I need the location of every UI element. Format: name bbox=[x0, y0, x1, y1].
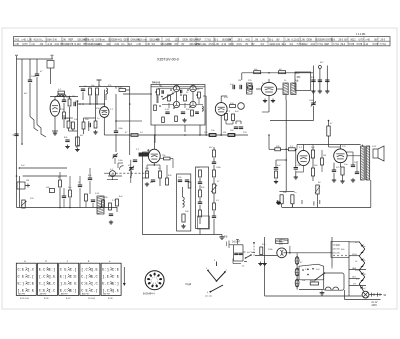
capacitor C12 bbox=[181, 111, 185, 113]
svg-text:9: 9 bbox=[152, 277, 153, 279]
IF transformer T2 bbox=[247, 83, 253, 94]
ground bbox=[221, 235, 223, 237]
resistor R45 bbox=[228, 134, 235, 137]
wire bbox=[220, 96, 222, 103]
wire bbox=[82, 92, 84, 100]
svg-text:L 96: L 96 bbox=[286, 39, 291, 41]
svg-text:1n: 1n bbox=[158, 168, 161, 170]
capacitor C38 bbox=[274, 167, 278, 169]
pot P2 bbox=[212, 184, 215, 193]
svg-text:25 104: 25 104 bbox=[88, 298, 95, 300]
tube V6 bbox=[238, 103, 245, 110]
svg-text:X35TUV-00-0: X35TUV-00-0 bbox=[157, 58, 179, 62]
wire bbox=[346, 151, 353, 153]
pot P3 bbox=[316, 185, 319, 194]
svg-text:2-62: 2-62 bbox=[166, 39, 171, 41]
wire bbox=[235, 121, 237, 124]
resistor R33 bbox=[213, 150, 216, 157]
resistor R56 bbox=[260, 247, 263, 255]
resistor R32 bbox=[199, 210, 202, 217]
line filter choke L6 bbox=[276, 239, 289, 244]
wire bbox=[141, 152, 143, 235]
capacitor C10 bbox=[114, 130, 118, 132]
capacitor C17 bbox=[78, 184, 82, 186]
mains bottom bus bbox=[265, 295, 362, 297]
svg-text:UY: UY bbox=[353, 284, 357, 286]
svg-text:205: 205 bbox=[279, 244, 284, 246]
svg-text:L 96: L 96 bbox=[301, 39, 306, 41]
svg-text:7.7.61: 7.7.61 bbox=[317, 44, 324, 46]
wire bbox=[333, 163, 335, 170]
resistor R10 bbox=[94, 121, 97, 128]
svg-text:E:]: E:] bbox=[49, 268, 56, 273]
svg-text:x 45: x 45 bbox=[15, 44, 20, 46]
wafer arrow bbox=[123, 267, 125, 284]
svg-text:4-61: 4-61 bbox=[118, 39, 123, 41]
capacitor C44 bbox=[195, 111, 199, 113]
wire bbox=[296, 145, 298, 150]
svg-text:10n: 10n bbox=[344, 164, 348, 166]
junction bbox=[19, 167, 21, 169]
AF box 2 bbox=[196, 167, 209, 229]
capacitor C13 bbox=[133, 159, 137, 161]
resistor R28 bbox=[116, 199, 119, 206]
svg-text:2n2: 2n2 bbox=[204, 132, 208, 134]
resistor R58 bbox=[154, 105, 157, 111]
svg-text:].E: ].E bbox=[112, 289, 119, 294]
svg-text:8: 8 bbox=[151, 279, 152, 281]
svg-text:2-62: 2-62 bbox=[15, 39, 20, 41]
antenna terminal A1 bbox=[16, 56, 18, 59]
tube V5 bbox=[215, 103, 227, 116]
capacitor C4 bbox=[62, 99, 66, 101]
svg-text:1M: 1M bbox=[72, 96, 75, 98]
wire bbox=[339, 145, 341, 150]
svg-text:BV: BV bbox=[157, 39, 161, 41]
svg-text:GEW: GEW bbox=[307, 39, 313, 41]
svg-text:100k: 100k bbox=[216, 167, 222, 169]
wire bbox=[319, 69, 321, 90]
wire bbox=[345, 299, 381, 301]
wire bbox=[77, 103, 104, 105]
svg-text:300: 300 bbox=[297, 77, 302, 79]
svg-text:15k: 15k bbox=[178, 177, 182, 179]
svg-text:200 245: 200 245 bbox=[333, 253, 341, 255]
resistor R27 bbox=[109, 203, 112, 210]
heater bus bbox=[348, 256, 350, 296]
left long bus bbox=[16, 59, 18, 208]
svg-text:4k7: 4k7 bbox=[320, 62, 324, 64]
resistor R54 bbox=[280, 195, 283, 204]
svg-text:4k7: 4k7 bbox=[80, 135, 84, 137]
switch wafer S1 bbox=[16, 263, 36, 295]
wire bbox=[115, 134, 117, 152]
terminal marks bbox=[371, 293, 373, 297]
wire bbox=[63, 115, 65, 118]
HT rail right bbox=[297, 144, 361, 146]
ground bbox=[321, 291, 323, 293]
svg-text:4-61: 4-61 bbox=[276, 44, 281, 46]
switch wafer S4 bbox=[80, 263, 100, 295]
svg-text:0.1: 0.1 bbox=[299, 147, 303, 149]
wire bbox=[154, 125, 156, 143]
wire bbox=[331, 237, 333, 266]
switch S1a bbox=[163, 94, 173, 100]
resistor R34 bbox=[213, 170, 216, 177]
svg-text:UCH: UCH bbox=[352, 254, 357, 256]
wire bbox=[312, 158, 314, 168]
resistor R61 bbox=[85, 194, 88, 201]
svg-text:2n2: 2n2 bbox=[316, 269, 320, 271]
capacitor C6 bbox=[81, 88, 85, 90]
capacitor C42 bbox=[161, 90, 163, 94]
resistor R31 bbox=[199, 190, 202, 197]
resistor R14 bbox=[184, 95, 187, 101]
svg-text:OK: OK bbox=[175, 44, 179, 46]
svg-text:4.5.6: 4.5.6 bbox=[34, 39, 40, 41]
dial lamp box bbox=[324, 273, 344, 290]
svg-text:9012: 9012 bbox=[351, 39, 357, 41]
svg-text:30-1: 30-1 bbox=[214, 39, 219, 41]
coil L5 bbox=[183, 197, 185, 200]
wire bbox=[59, 172, 61, 180]
wire bbox=[159, 85, 161, 87]
wire bbox=[36, 59, 38, 74]
svg-text:AM FM: AM FM bbox=[61, 293, 68, 296]
resistor R22 bbox=[166, 178, 169, 185]
ground bbox=[352, 178, 354, 180]
resistor R57 bbox=[310, 282, 318, 285]
svg-text:8n2: 8n2 bbox=[119, 196, 123, 198]
wire bbox=[241, 73, 243, 80]
svg-text:220: 220 bbox=[30, 198, 34, 200]
wire bbox=[199, 229, 201, 235]
svg-text:5k6: 5k6 bbox=[75, 101, 79, 103]
FM row wires bbox=[158, 88, 173, 90]
resistor R15 bbox=[191, 110, 194, 116]
range switch box bbox=[299, 264, 324, 280]
FM top rail bbox=[151, 86, 205, 88]
svg-text:b: b bbox=[46, 260, 48, 263]
ground bbox=[146, 182, 148, 184]
svg-text:12.8: 12.8 bbox=[331, 39, 336, 41]
ground bbox=[264, 99, 266, 101]
svg-text:E.C: E.C bbox=[49, 283, 56, 287]
svg-text:30-1: 30-1 bbox=[282, 44, 287, 46]
FM wires bbox=[176, 84, 178, 87]
junction bbox=[59, 207, 61, 209]
resistor R47 bbox=[311, 150, 314, 158]
svg-text:4-61: 4-61 bbox=[311, 44, 316, 46]
tube V4 (ECH81) bbox=[261, 82, 276, 95]
svg-text:8n2: 8n2 bbox=[362, 288, 366, 290]
svg-text:REP: REP bbox=[325, 44, 330, 46]
svg-text:E:]: E:] bbox=[112, 282, 119, 287]
svg-text:82k: 82k bbox=[262, 244, 266, 246]
svg-text:REP: REP bbox=[69, 39, 74, 41]
svg-text:7/8: 7/8 bbox=[224, 236, 228, 239]
B+ rail bbox=[79, 86, 130, 88]
svg-text:30-1: 30-1 bbox=[269, 39, 274, 41]
svg-text:REP: REP bbox=[197, 39, 202, 41]
svg-text:C E: C E bbox=[28, 290, 35, 294]
junction bbox=[268, 72, 270, 74]
wire bbox=[361, 145, 363, 147]
svg-text:47k: 47k bbox=[336, 167, 340, 169]
wire bbox=[83, 129, 85, 134]
svg-text:145 165: 145 165 bbox=[333, 249, 341, 251]
wire bbox=[63, 120, 65, 128]
wire bbox=[63, 97, 65, 101]
wire bbox=[154, 135, 156, 143]
svg-text:UITV: UITV bbox=[23, 44, 29, 46]
capacitor C33 bbox=[325, 79, 329, 81]
resistor R8 bbox=[71, 122, 74, 129]
svg-text:100k: 100k bbox=[268, 249, 274, 251]
svg-text:mrt: mrt bbox=[144, 38, 148, 41]
svg-text:A 12: A 12 bbox=[48, 43, 53, 46]
svg-text:4.5.6: 4.5.6 bbox=[209, 44, 215, 46]
svg-text:B 25 104: B 25 104 bbox=[20, 298, 30, 300]
capacitor C20 bbox=[178, 179, 182, 181]
svg-text:4: 4 bbox=[157, 282, 158, 284]
AVC bus bbox=[116, 134, 248, 136]
svg-text:1M: 1M bbox=[323, 155, 326, 157]
junction bbox=[115, 120, 117, 122]
svg-text:B 26: B 26 bbox=[44, 298, 49, 300]
svg-text:E.C: E.C bbox=[91, 276, 98, 280]
ground bbox=[183, 224, 185, 226]
svg-text:6.12.62: 6.12.62 bbox=[292, 39, 300, 41]
svg-text:0.1: 0.1 bbox=[140, 132, 144, 134]
capacitor C32 bbox=[318, 79, 322, 81]
svg-text:a: a bbox=[24, 260, 26, 263]
capacitor C40 bbox=[234, 252, 238, 254]
wire bbox=[105, 94, 107, 100]
resistor R11 bbox=[157, 89, 160, 95]
svg-text:1 4.2 681: 1 4.2 681 bbox=[356, 34, 366, 36]
resistor R23 bbox=[49, 189, 54, 193]
svg-text:L 96: L 96 bbox=[28, 39, 33, 41]
ground bbox=[76, 148, 78, 150]
junction bbox=[21, 143, 23, 145]
resistor R39 bbox=[279, 71, 286, 74]
svg-text:mrt: mrt bbox=[102, 38, 106, 41]
svg-text:2.2: 2.2 bbox=[110, 109, 114, 111]
junction bbox=[82, 103, 84, 105]
capacitor C36 bbox=[355, 171, 359, 173]
wire bbox=[205, 110, 207, 135]
wire bbox=[349, 241, 360, 243]
wire bbox=[349, 255, 360, 257]
svg-text:47k: 47k bbox=[362, 260, 366, 262]
wire bbox=[36, 77, 38, 125]
svg-text:2x0.047: 2x0.047 bbox=[232, 241, 241, 243]
svg-text:1M: 1M bbox=[223, 132, 226, 134]
wire bbox=[54, 116, 56, 128]
svg-text:220: 220 bbox=[336, 245, 340, 247]
svg-text:1k: 1k bbox=[186, 92, 189, 94]
svg-text:(A)M: (A)M bbox=[47, 38, 52, 41]
wire bbox=[270, 120, 313, 122]
right ground bus bbox=[282, 207, 371, 209]
svg-text:BV: BV bbox=[277, 39, 281, 41]
tube V3 bbox=[148, 149, 160, 163]
wire bbox=[347, 155, 361, 157]
ground bus bbox=[17, 207, 118, 209]
wire bbox=[176, 92, 178, 102]
svg-text:5 678: 5 678 bbox=[357, 44, 363, 46]
wire bbox=[142, 177, 147, 179]
svg-text:B 27: B 27 bbox=[66, 298, 71, 300]
wire bbox=[296, 253, 298, 257]
resistor R59 bbox=[162, 117, 165, 123]
svg-text:1n: 1n bbox=[297, 73, 300, 75]
svg-text:AM FM: AM FM bbox=[40, 293, 47, 296]
svg-text:E:]: E:] bbox=[70, 289, 77, 294]
svg-text:AM FM: AM FM bbox=[103, 293, 110, 296]
ground bbox=[54, 131, 56, 133]
svg-text:2-12: 2-12 bbox=[364, 44, 369, 46]
svg-text:15k: 15k bbox=[162, 155, 166, 157]
wire bbox=[269, 148, 275, 150]
tone switch bbox=[208, 270, 217, 281]
resistor R6 bbox=[119, 89, 126, 92]
svg-text:5k6: 5k6 bbox=[341, 249, 345, 251]
electrolytic C9 bbox=[76, 137, 80, 146]
svg-text:L 96: L 96 bbox=[215, 44, 220, 46]
svg-text:xxx xxx: xxx xxx bbox=[205, 296, 213, 298]
svg-text:[.C: [.C bbox=[91, 282, 98, 287]
svg-text:6: 6 bbox=[153, 283, 154, 285]
ground bbox=[333, 178, 335, 180]
svg-text:47: 47 bbox=[217, 181, 220, 183]
svg-text:4-61: 4-61 bbox=[246, 39, 251, 41]
svg-text:0.05: 0.05 bbox=[224, 97, 229, 99]
wire bbox=[281, 204, 283, 208]
ground bbox=[110, 220, 112, 222]
resistor R52 bbox=[288, 148, 295, 151]
svg-text:47k: 47k bbox=[88, 175, 92, 177]
wire bbox=[79, 188, 81, 208]
svg-text:82k: 82k bbox=[201, 187, 205, 189]
capacitor C39 bbox=[294, 167, 298, 169]
wire bbox=[37, 125, 46, 138]
svg-text:47k: 47k bbox=[196, 89, 200, 91]
FM contact dots bbox=[155, 91, 157, 93]
antenna terminal bbox=[318, 66, 321, 69]
wire bbox=[20, 167, 67, 169]
wire bbox=[116, 207, 118, 212]
mains switch S2 bbox=[246, 255, 252, 258]
wire bbox=[255, 255, 277, 257]
svg-text:1: 1 bbox=[154, 277, 155, 279]
capacitor C30 bbox=[239, 126, 243, 128]
wire bbox=[213, 158, 215, 162]
svg-text:330: 330 bbox=[104, 197, 108, 199]
wire bbox=[96, 96, 98, 104]
junction bbox=[220, 134, 222, 136]
antenna terminal A2 bbox=[51, 56, 53, 59]
capacitor C19 bbox=[109, 213, 113, 215]
wire bbox=[18, 176, 20, 208]
wire bbox=[234, 260, 244, 262]
svg-text:47: 47 bbox=[40, 71, 43, 73]
wire bbox=[344, 290, 346, 300]
svg-text:330: 330 bbox=[186, 109, 190, 111]
resistor R17 bbox=[209, 134, 216, 137]
wire bbox=[21, 96, 23, 144]
resistor R2 bbox=[68, 99, 71, 106]
FM dipole box bbox=[295, 72, 311, 90]
wire bbox=[225, 120, 227, 124]
trimmer C15 bbox=[129, 167, 133, 169]
svg-text:n5: n5 bbox=[242, 266, 245, 268]
wire bbox=[131, 171, 133, 177]
wire bbox=[370, 180, 372, 208]
ground bbox=[278, 201, 280, 203]
junction bbox=[268, 134, 270, 136]
svg-text:x 45: x 45 bbox=[366, 39, 371, 41]
resistor R5 bbox=[96, 88, 99, 95]
svg-text:7.7.61: 7.7.61 bbox=[380, 44, 387, 46]
tube V2 bbox=[100, 107, 109, 118]
switch contacts bbox=[302, 269, 304, 271]
svg-text:220: 220 bbox=[243, 132, 247, 134]
coil L10 bbox=[202, 106, 203, 109]
IF transformer T3 bbox=[283, 83, 288, 95]
svg-text:7.7.61: 7.7.61 bbox=[205, 39, 212, 41]
capacitor C27 bbox=[232, 85, 234, 89]
wire bbox=[184, 125, 186, 132]
svg-text:C:E: C:E bbox=[28, 283, 35, 287]
wire bbox=[159, 178, 161, 186]
wire bbox=[69, 198, 71, 208]
capacitor C8 bbox=[65, 139, 69, 141]
svg-text:4k7: 4k7 bbox=[247, 252, 251, 254]
loudspeaker LS bbox=[373, 149, 378, 158]
junction cluster bbox=[77, 100, 79, 102]
svg-text:100k: 100k bbox=[118, 128, 124, 130]
wire bbox=[301, 200, 303, 204]
svg-text:x 45: x 45 bbox=[90, 39, 95, 41]
capacitor C45 bbox=[62, 195, 66, 197]
resistor R38 bbox=[254, 71, 261, 74]
capacitor C43 bbox=[180, 90, 182, 94]
resistor R16 bbox=[131, 134, 138, 137]
svg-text:8V: 8V bbox=[182, 44, 185, 46]
resistor R21 bbox=[159, 171, 162, 178]
resistor R20 bbox=[146, 171, 149, 178]
wire bbox=[265, 255, 277, 257]
svg-text:5 678: 5 678 bbox=[373, 44, 379, 46]
wire bbox=[115, 94, 117, 131]
svg-text:GEW: GEW bbox=[183, 39, 189, 41]
svg-text:1M: 1M bbox=[26, 180, 29, 182]
svg-text:0.05: 0.05 bbox=[95, 193, 100, 195]
switch wafer S5 bbox=[101, 263, 121, 295]
switch wafer S3 bbox=[59, 263, 79, 295]
svg-text:N.123: N.123 bbox=[75, 44, 82, 46]
svg-text:5: 5 bbox=[155, 283, 156, 285]
wire bbox=[29, 83, 31, 117]
svg-text:8V: 8V bbox=[246, 44, 249, 46]
wire bbox=[303, 145, 305, 151]
voltage selector box bbox=[331, 241, 349, 257]
svg-text:x 45: x 45 bbox=[22, 39, 27, 41]
resistor R30 bbox=[199, 170, 202, 177]
capacitor C41 bbox=[239, 252, 243, 254]
